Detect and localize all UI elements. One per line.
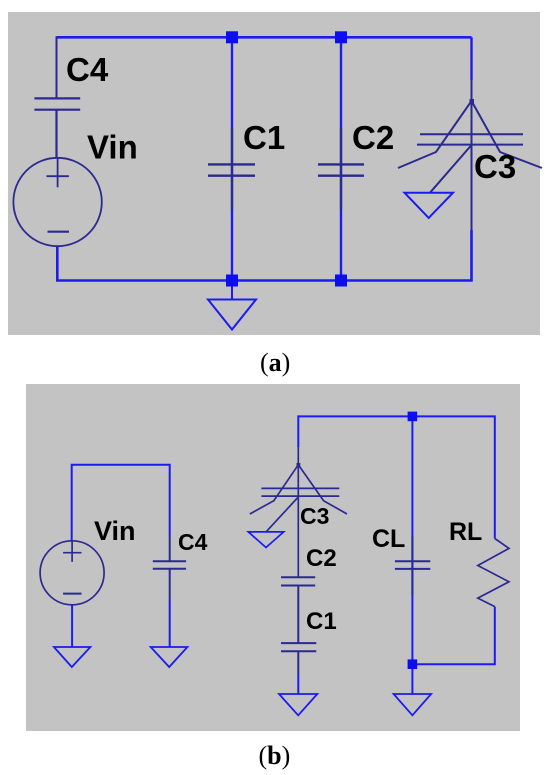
wire CL ground stub (b) xyxy=(411,664,413,694)
svg-text:RL: RL xyxy=(449,518,482,546)
caption (a) xyxy=(260,348,290,378)
ground C4 (b) xyxy=(151,647,188,667)
svg-text:C1: C1 xyxy=(306,608,337,635)
voltage source Vin (a) xyxy=(13,158,101,246)
wire Vin-C4 loop (b) xyxy=(72,465,170,541)
svg-text:C4: C4 xyxy=(178,529,208,555)
wire CL vertical (b) xyxy=(411,421,413,660)
wire C1 vertical (a) xyxy=(231,37,233,280)
ground Vin (b) xyxy=(54,647,91,667)
capacitor C1 leads (a) xyxy=(231,128,233,210)
panel (a) background xyxy=(8,12,540,335)
capacitor C4 (b) xyxy=(153,536,186,600)
varactor C3 (b) xyxy=(250,447,347,577)
wire Vin bottom lead (b) xyxy=(71,605,73,647)
wire C3 top lead (a) xyxy=(470,37,472,80)
resistor RL (b) xyxy=(478,539,509,607)
junction bottom-right (a) xyxy=(335,275,347,287)
capacitor C1 (a) xyxy=(208,164,255,175)
wire C4 top lead (a) xyxy=(56,36,58,98)
junction bottom (b) xyxy=(408,659,418,669)
caption (b) xyxy=(259,741,291,771)
svg-text:C2: C2 xyxy=(306,545,337,572)
svg-text:CL: CL xyxy=(372,525,405,553)
capacitor C1 (b) xyxy=(281,643,316,674)
svg-text:C3: C3 xyxy=(300,503,329,529)
capacitor C4 (a) xyxy=(34,98,80,158)
wire top net (a) xyxy=(57,36,472,39)
wire C1 bottom lead (b) xyxy=(297,674,299,694)
ground bottom (a) xyxy=(208,281,256,330)
panel (b) background xyxy=(26,384,520,731)
junction top (b) xyxy=(408,412,418,422)
wire C4 bottom lead (b) xyxy=(169,600,171,647)
capacitor C2 leads (a) xyxy=(340,128,342,210)
ground C1 (b) xyxy=(279,694,317,715)
ground C3 (b) xyxy=(248,532,283,548)
ground CL (b) xyxy=(394,694,432,715)
capacitor C2 (a) xyxy=(318,164,364,175)
junction bottom-left (a) xyxy=(226,275,238,287)
wire top net (b) xyxy=(298,416,495,538)
voltage source Vin (b) xyxy=(40,541,104,605)
wire bottom net (a) xyxy=(57,230,471,281)
wire RL bottom (b) xyxy=(412,607,494,665)
ground C3 (a) xyxy=(405,193,454,218)
junction top-right (a) xyxy=(335,31,347,43)
capacitor C2 (b) xyxy=(281,577,315,643)
wire C2 vertical (a) xyxy=(340,37,342,280)
svg-text:Vin: Vin xyxy=(94,516,136,546)
capacitor CL (b) xyxy=(395,536,430,595)
junction top-left (a) xyxy=(226,31,238,43)
varactor C3 (a) xyxy=(398,80,542,230)
